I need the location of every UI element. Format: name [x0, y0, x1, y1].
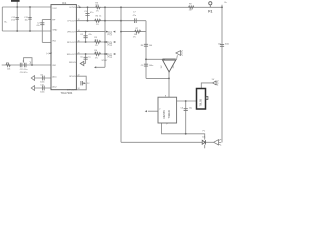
svg-text:10u: 10u: [24, 19, 27, 21]
svg-text:1%: 1%: [133, 36, 136, 38]
svg-text:100: 100: [149, 45, 153, 47]
svg-text:10u: 10u: [189, 107, 192, 109]
svg-text:20: 20: [78, 52, 80, 54]
svg-text:C15 10u: C15 10u: [20, 69, 28, 71]
svg-text:22: 22: [78, 75, 80, 77]
svg-text:5V: 5V: [161, 65, 163, 68]
svg-text:TIMER: TIMER: [167, 110, 171, 118]
svg-text:SFD-IN: SFD-IN: [69, 62, 76, 64]
svg-text:16: 16: [78, 40, 80, 42]
svg-text:LS2: LS2: [111, 41, 113, 46]
svg-text:LS1: LS1: [111, 30, 113, 35]
svg-text:P: P: [166, 124, 168, 126]
svg-text:SPF-OUT: SPF-OUT: [67, 90, 77, 92]
svg-text:1u: 1u: [88, 57, 90, 59]
svg-text:ST-BY: ST-BY: [102, 60, 108, 62]
svg-text:100n: 100n: [40, 81, 44, 83]
svg-text:100n: 100n: [149, 65, 153, 67]
svg-text:P1: P1: [203, 130, 206, 132]
svg-text:2k7: 2k7: [189, 10, 193, 12]
svg-text:12: 12: [78, 19, 80, 21]
svg-text:C4: C4: [80, 34, 83, 36]
svg-text:C7: C7: [133, 11, 136, 13]
svg-text:C16 47n: C16 47n: [20, 72, 28, 74]
svg-text:2m2: 2m2: [11, 19, 16, 21]
svg-text:10k: 10k: [7, 69, 10, 71]
svg-text:LS3: LS3: [111, 53, 113, 58]
svg-text:100n: 100n: [225, 44, 229, 46]
svg-text:1%: 1%: [95, 45, 98, 47]
svg-text:14: 14: [78, 30, 80, 32]
svg-text:2C: 2C: [87, 83, 90, 85]
svg-text:GND: GND: [52, 30, 57, 32]
svg-text:10: 10: [78, 6, 80, 8]
svg-text:C6: C6: [180, 107, 183, 109]
svg-text:LFR-OUT: LFR-OUT: [67, 32, 76, 34]
svg-text:LFT-OUT: LFT-OUT: [67, 21, 76, 23]
svg-text:(+)CP: (+)CP: [46, 53, 52, 55]
svg-text:1k0: 1k0: [95, 5, 99, 7]
svg-text:B+: B+: [5, 22, 8, 24]
svg-text:C5: C5: [80, 57, 83, 59]
svg-text:1k: 1k: [99, 15, 101, 17]
svg-text:IC1: IC1: [62, 1, 67, 5]
svg-text:10k: 10k: [202, 137, 205, 139]
svg-text:R9: R9: [189, 3, 192, 5]
svg-text:SFD-OUT: SFD-OUT: [67, 54, 77, 56]
svg-text:C9: C9: [141, 65, 144, 67]
svg-text:1%: 1%: [95, 57, 98, 59]
svg-text:1%: 1%: [96, 24, 99, 26]
svg-text:NE555: NE555: [162, 110, 166, 119]
svg-text:R8: R8: [141, 45, 144, 47]
svg-text:78L05: 78L05: [199, 99, 203, 107]
svg-text:47n: 47n: [90, 12, 93, 14]
svg-text:24: 24: [78, 88, 80, 90]
svg-text:5V: 5V: [212, 79, 215, 81]
svg-text:LFT-IN: LFT-IN: [70, 7, 77, 9]
svg-text:B+: B+: [225, 2, 228, 4]
svg-text:100n: 100n: [40, 91, 44, 93]
svg-text:SPL-IN: SPL-IN: [69, 76, 76, 78]
svg-text:F1: F1: [208, 10, 212, 14]
svg-text:47n: 47n: [88, 34, 91, 36]
svg-text:C8: C8: [40, 74, 43, 76]
svg-text:1%: 1%: [96, 10, 99, 12]
svg-text:CC: CC: [173, 65, 175, 69]
svg-text:47n: 47n: [36, 25, 39, 27]
svg-text:47n: 47n: [133, 15, 136, 17]
svg-text:RFT-OUT: RFT-OUT: [67, 42, 76, 44]
svg-text:VCC: VCC: [52, 8, 57, 10]
svg-text:R7: R7: [136, 28, 139, 30]
